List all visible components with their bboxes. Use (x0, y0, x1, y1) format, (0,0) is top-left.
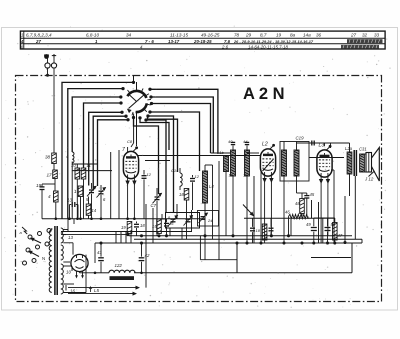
parts list table frame (20, 31, 385, 49)
wire link under coil (72, 163, 98, 165)
svg-text:18: 18 (256, 228, 261, 233)
wire rectifier cathode (79, 272, 81, 273)
bus HT line (95, 242, 362, 244)
svg-text:L4: L4 (209, 184, 214, 189)
oscillator coil L4 (204, 165, 206, 171)
svg-text:C14: C14 (171, 168, 179, 173)
svg-text:20-18-25: 20-18-25 (193, 39, 212, 44)
band switch S1 contact arc upper (127, 91, 146, 98)
capacitor C42 filter (141, 243, 143, 257)
capacitor C41 filter (100, 243, 102, 257)
wire loop A left (68, 89, 123, 219)
tube V3 (output pentode) (317, 150, 332, 177)
wire R17 down (54, 179, 56, 192)
wire mid vertical a (212, 165, 214, 226)
earth terminal E (51, 63, 56, 68)
svg-text:26 - 28-9-10-11-29,24 - 18-30-: 26 - 28-9-10-11-29,24 - 18-30-12-15-14-1… (233, 39, 314, 44)
resistor R40 (54, 191, 59, 202)
wire switch contact drop 2 (134, 118, 159, 195)
wire loop C left (84, 103, 122, 168)
wire mid vertical link (205, 164, 213, 166)
svg-text:33: 33 (374, 33, 380, 38)
svg-text:4: 4 (20, 39, 24, 44)
mains voltage selector contacts (28, 235, 32, 239)
svg-text:13: 13 (67, 198, 73, 203)
rectifier tube V4 (71, 254, 88, 271)
svg-text:C19: C19 (296, 136, 305, 141)
tube V1 (RF pentode) (123, 151, 138, 178)
trimmer capacitor C5 (91, 183, 93, 189)
wire switch contact drop 3 (148, 115, 178, 173)
svg-text:16: 16 (169, 221, 174, 226)
capacitor C16m (166, 219, 168, 222)
svg-text:2,6: 2,6 (221, 44, 229, 49)
band switch S1 contact dots (121, 87, 124, 90)
wire loop A right (150, 89, 218, 153)
trimmer C8 in box (171, 218, 176, 220)
svg-text:42: 42 (145, 253, 150, 258)
resistor R15 (157, 219, 162, 234)
svg-text:C8: C8 (127, 139, 133, 144)
resistor R1 (78, 186, 83, 197)
svg-text:7 - 6: 7 - 6 (145, 39, 154, 44)
IF transformer T1 secondary (246, 146, 248, 151)
wire R15 C16 top (159, 218, 167, 220)
bus AVC line (42, 218, 205, 220)
wire loop D right (150, 112, 200, 171)
power transformer secondary winding lower (61, 264, 64, 284)
bus ground return line (95, 272, 109, 274)
svg-text:12: 12 (147, 172, 152, 177)
output transformer secondary (360, 154, 365, 172)
speaker pointer line (369, 171, 375, 177)
wire short link right of V1 (145, 160, 170, 162)
resistor R17 (53, 170, 58, 179)
wire V2 screen drop (260, 170, 262, 243)
wire loop E left (93, 116, 126, 190)
resistor R21 in V2 anode lead (262, 224, 267, 240)
svg-text:27: 27 (350, 33, 357, 38)
svg-text:6,8-10: 6,8-10 (86, 33, 99, 38)
IF transformer T2 box (280, 142, 309, 182)
resistor R48 (300, 199, 305, 214)
wire V3 anode to output transformer (324, 143, 326, 146)
svg-text:18: 18 (140, 223, 145, 228)
resistor R11 (81, 168, 86, 179)
wire stage drops (145, 204, 147, 288)
wire switch lower stem to V1 grid cap (136, 113, 138, 147)
wire aerial terminal A stem (47, 59, 49, 64)
bus AVC right segment (244, 217, 335, 219)
aerial coil L1b (224, 156, 229, 172)
electrolytic capacitor C49 (313, 218, 315, 226)
resistor R10 (75, 168, 80, 179)
resistor R19 cathode (127, 222, 132, 234)
svg-text:4: 4 (48, 194, 51, 199)
wire loop B right (151, 97, 213, 153)
power transformer primary winding (51, 228, 53, 230)
wire T2 drops (283, 176, 285, 243)
svg-text:18: 18 (179, 192, 184, 197)
svg-text:122: 122 (115, 263, 123, 268)
trimmer C9 in box (186, 218, 191, 220)
svg-text:L2: L2 (262, 142, 268, 148)
output transformer T3 primary (347, 152, 352, 174)
electrolytic capacitor C50 (327, 218, 329, 226)
scan speckle noise (130, 68, 131, 69)
wire V1 grid line to V2 (138, 155, 260, 157)
bus anode line (134, 238, 362, 240)
wire switch top feed (133, 76, 135, 85)
chassis boundary (dash-dot border) (16, 76, 382, 302)
svg-text:40: 40 (228, 139, 233, 144)
svg-text:A 2 N: A 2 N (243, 85, 285, 103)
wire V1 anode leads down (127, 185, 129, 219)
filter box right edge (351, 243, 353, 273)
wire aerial feed top loop (62, 82, 134, 218)
capacitor C12a grid (143, 170, 145, 175)
tube V2 (IF pentode) (260, 149, 275, 176)
svg-text:C7: C7 (151, 203, 157, 208)
wire V3 leads (320, 183, 322, 243)
coil L4a small (72, 152, 74, 163)
wire loop D left (89, 112, 122, 185)
power transformer secondary winding upper (61, 228, 64, 243)
junction dots bottom (235, 241, 238, 244)
svg-text:L3: L3 (319, 143, 325, 149)
band switch S1 wiper arrow (129, 94, 146, 109)
svg-text:7,6: 7,6 (224, 39, 231, 44)
svg-text:24: 24 (207, 218, 213, 223)
svg-text:38: 38 (45, 155, 51, 160)
resistor R14 (86, 204, 91, 215)
resistor R47 (333, 223, 338, 241)
wire loop E right (148, 116, 174, 213)
loudspeaker (366, 153, 372, 173)
svg-text:48: 48 (295, 201, 300, 206)
svg-text:12: 12 (195, 174, 200, 179)
wire heater risers (67, 219, 69, 230)
svg-text:46: 46 (285, 210, 290, 215)
wire V2 anode leads (264, 182, 266, 243)
wire C19a top link (42, 183, 55, 185)
wire HT left drop (94, 243, 96, 263)
parts table row divider 2 (20, 43, 385, 45)
parts table row divider 1 (20, 37, 385, 39)
svg-text:19: 19 (121, 225, 126, 230)
heater wire 2 (61, 234, 128, 236)
IF transformer T2 primary (283, 142, 285, 151)
V2 internal diode diagonal (263, 159, 274, 171)
capacitor C13 (70, 204, 72, 206)
svg-text:17: 17 (47, 173, 53, 178)
dial drive arrow 16 (65, 285, 67, 291)
svg-text:19: 19 (276, 33, 282, 38)
wire V3 screen (333, 170, 335, 243)
capacitor C19a (41, 184, 43, 187)
capacitor C18 cathode (136, 222, 138, 224)
aerial terminal top blob (44, 54, 49, 59)
svg-text:45: 45 (310, 192, 315, 197)
svg-text:14-64-20-11-15,7-18: 14-64-20-11-15,7-18 (248, 44, 289, 49)
choke core bar (110, 276, 135, 280)
svg-text:6,7,9,8,2,3,4: 6,7,9,8,2,3,4 (26, 33, 52, 38)
svg-text:29: 29 (245, 33, 252, 38)
dial drive arrow L5 (68, 293, 133, 295)
wire mid vertical b (218, 161, 220, 243)
svg-text:36: 36 (316, 33, 322, 38)
wire mid shelf (200, 259, 237, 261)
mains arrow (22, 227, 27, 234)
capacitor C12 (192, 175, 194, 177)
svg-text:L5: L5 (94, 288, 100, 293)
heater wire 1 (61, 231, 192, 233)
wire earth terminal stem into chassis (53, 58, 55, 63)
svg-text:8,7: 8,7 (260, 33, 267, 38)
IF transformer T1 primary L5a (232, 146, 234, 151)
bus B+ screen line (129, 235, 352, 237)
wire secondary taps (63, 229, 68, 231)
wire loop F left (98, 120, 129, 186)
earth terminal arrow (53, 54, 55, 58)
wire heater comb (115, 232, 117, 244)
svg-text:47: 47 (338, 233, 343, 238)
power transformer secondary winding middle (61, 245, 64, 260)
parts table row 2 dark segment (347, 39, 383, 43)
wire loop B left (72, 97, 120, 152)
resistor R46 volume (289, 214, 309, 218)
svg-text:14: 14 (92, 208, 97, 213)
junction dots on AVC bus (55, 217, 58, 220)
wire box24 feeds (204, 203, 206, 211)
wire V1 grid cap (137, 148, 138, 149)
power transformer secondary winding bottom (61, 284, 64, 294)
svg-text:11-13-15: 11-13-15 (170, 33, 188, 38)
wire loop F right (146, 120, 166, 213)
trimmer cap above T1 (231, 141, 235, 143)
junction dots on buses (157, 234, 160, 237)
svg-text:10: 10 (71, 163, 76, 168)
svg-text:41: 41 (97, 250, 102, 255)
svg-text:13: 13 (68, 235, 73, 240)
aerial terminal A (45, 63, 50, 68)
svg-text:J 12: J 12 (364, 177, 374, 182)
svg-text:N: N (42, 256, 45, 261)
svg-text:34: 34 (126, 33, 132, 38)
svg-text:L2a: L2a (345, 146, 353, 151)
svg-text:16: 16 (70, 289, 75, 294)
wire rectifier anode feeds (72, 243, 74, 255)
wire switch contact drop 1 (140, 118, 169, 150)
band switch S1 contact stubs (128, 90, 130, 93)
voltage selector wiper arm (32, 239, 42, 244)
svg-text:32: 32 (362, 33, 368, 38)
parts table row 3 dark segment (341, 45, 379, 49)
wire R40 to bus (55, 202, 57, 219)
wire speaker leads (362, 153, 366, 155)
wire T1 drops (232, 176, 234, 236)
filter choke L22 (109, 270, 135, 273)
svg-text:C31: C31 (359, 147, 367, 152)
parts table left column divider (23, 31, 25, 49)
svg-text:27: 27 (35, 39, 41, 44)
trimmer capacitor C6 (100, 185, 102, 190)
svg-text:1: 1 (21, 33, 24, 38)
power transformer core (54, 226, 56, 295)
trimmer capacitor C7 (156, 188, 158, 196)
wire padder box drop (181, 228, 183, 239)
svg-text:14a: 14a (303, 33, 311, 38)
svg-text:8a: 8a (290, 33, 296, 38)
wire T1 grid link to V2 (247, 152, 259, 154)
wire screen line through V3 (309, 157, 344, 159)
wire loop C right (152, 104, 211, 154)
IF transformer T2 secondary (296, 142, 298, 151)
svg-text:13-17: 13-17 (168, 39, 180, 44)
wire filter box inner shelf (311, 257, 351, 259)
wire IF link under loops (211, 152, 231, 154)
svg-text:49: 49 (306, 222, 311, 227)
capacitor C45 (304, 195, 309, 197)
wire V1 anode link top (127, 147, 129, 152)
AVC pointer arrow (243, 205, 253, 215)
filter box left edge (236, 243, 238, 273)
padder box (166, 213, 200, 229)
svg-text:78: 78 (234, 33, 240, 38)
band switch S1 contact arc lower (136, 103, 147, 112)
resistor R18 (184, 189, 189, 201)
wire R10 R11 drops (76, 179, 78, 219)
capacitor C18b (252, 218, 254, 227)
svg-text:11: 11 (87, 163, 91, 168)
svg-text:10: 10 (66, 270, 71, 275)
svg-text:19: 19 (36, 183, 42, 188)
output transformer core (353, 150, 355, 176)
wire electrolytic top link (314, 217, 335, 219)
wire R38 to R17 (53, 164, 55, 171)
svg-text:44: 44 (243, 139, 248, 144)
coil L14 (179, 168, 181, 173)
resistor R38 (52, 153, 57, 164)
small network box 24 (198, 211, 219, 227)
capacitor C22b (270, 218, 272, 227)
svg-text:L1b: L1b (217, 150, 224, 155)
wire transformer primary feeds (349, 143, 351, 152)
junction dot aerial feed (132, 81, 135, 84)
